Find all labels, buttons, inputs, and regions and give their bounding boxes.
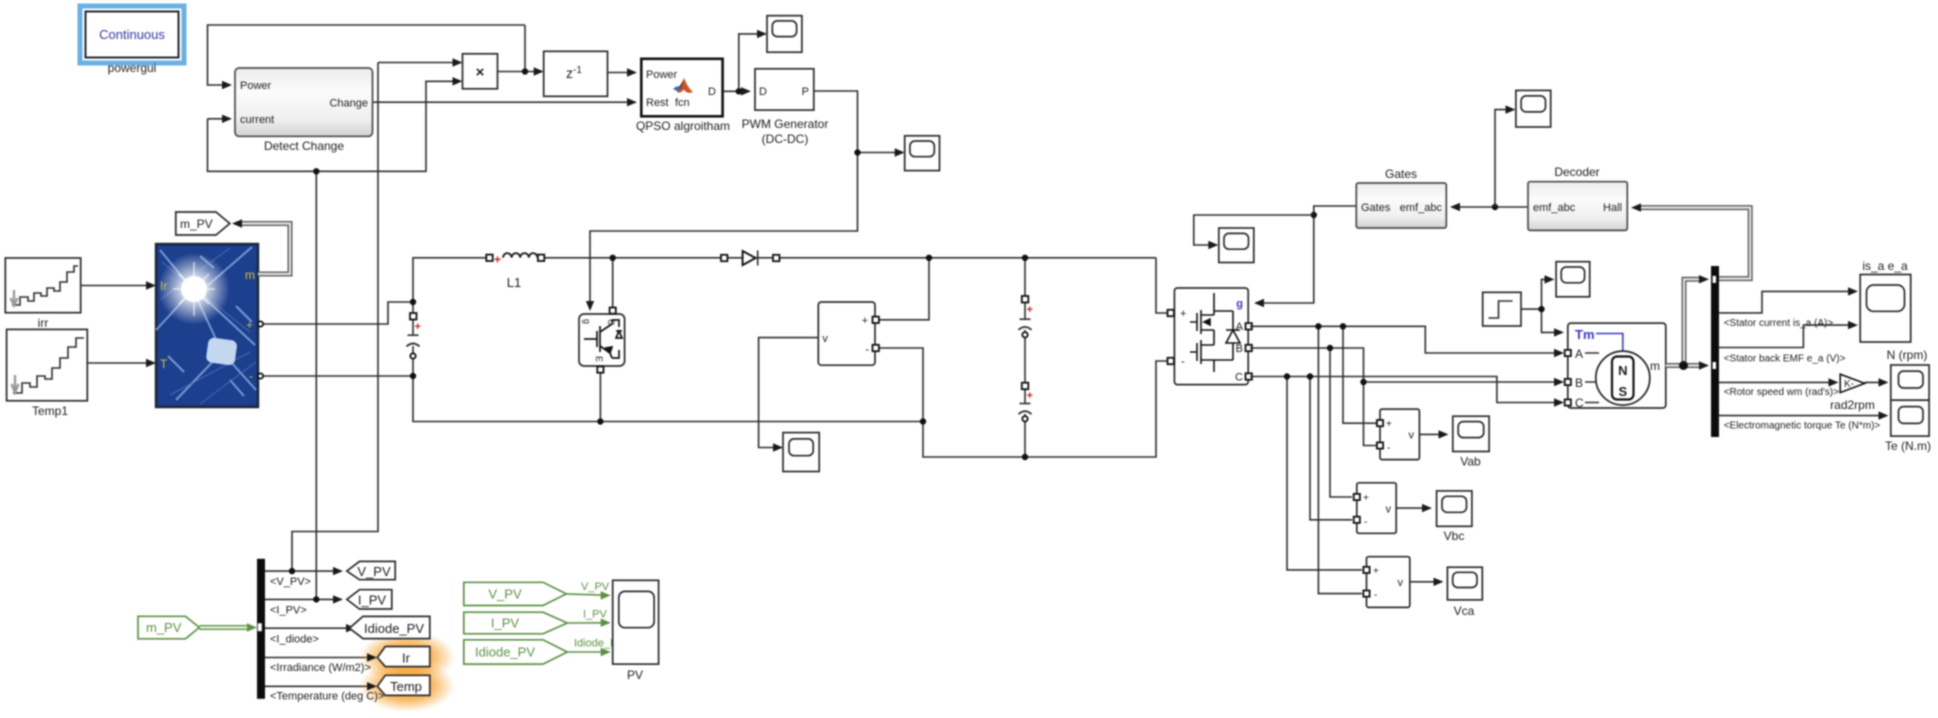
svg-text:v: v (822, 333, 828, 345)
svg-text:<Stator current is_a (A)>: <Stator current is_a (A)> (1724, 318, 1834, 329)
svg-text:Vca: Vca (1454, 604, 1475, 618)
svg-text:Temp1: Temp1 (32, 404, 68, 418)
svg-text:m: m (1650, 359, 1660, 373)
svg-text:v: v (1409, 430, 1415, 442)
svg-text:m: m (245, 268, 255, 282)
svg-text:g: g (582, 319, 592, 324)
svg-text:Idiode_PV: Idiode_PV (475, 645, 535, 660)
svg-text:+: + (1180, 308, 1186, 320)
svg-text:PV: PV (627, 668, 643, 682)
svg-text:B: B (1575, 376, 1583, 390)
svg-text:<I_diode>: <I_diode> (270, 634, 319, 646)
svg-text:Power: Power (646, 69, 678, 81)
svg-text:V_PV: V_PV (357, 564, 391, 579)
svg-text:<Temperature (deg C)>: <Temperature (deg C)> (270, 691, 384, 703)
svg-text:emf_abc: emf_abc (1533, 202, 1576, 214)
svg-text:+: + (1363, 493, 1369, 504)
svg-text:fcn: fcn (675, 97, 690, 109)
svg-text:Temp: Temp (390, 679, 422, 694)
svg-text:emf_abc: emf_abc (1400, 202, 1443, 214)
svg-text:K-: K- (1844, 379, 1854, 390)
svg-text:I_PV: I_PV (491, 616, 520, 631)
svg-text:A: A (1236, 321, 1244, 333)
svg-text:-: - (865, 344, 869, 356)
svg-text:×: × (476, 64, 485, 81)
svg-text:Vab: Vab (1460, 455, 1481, 469)
svg-text:+: + (1373, 566, 1379, 577)
svg-text:C: C (1235, 372, 1243, 384)
svg-text:-: - (249, 369, 253, 383)
svg-text:g: g (1236, 298, 1243, 310)
svg-text:irr: irr (38, 316, 49, 330)
svg-text:C: C (1575, 396, 1584, 410)
svg-text:m_PV: m_PV (180, 217, 213, 231)
svg-text:rad2rpm: rad2rpm (1830, 398, 1875, 412)
svg-text:D: D (759, 86, 767, 98)
svg-text:Power: Power (240, 80, 272, 92)
svg-text:+: + (862, 315, 868, 327)
svg-text:<Stator back EMF e_a (V)>: <Stator back EMF e_a (V)> (1724, 354, 1846, 365)
svg-text:Decoder: Decoder (1554, 165, 1599, 179)
svg-text:S: S (1618, 384, 1627, 399)
svg-text:Tm: Tm (1575, 327, 1595, 342)
svg-text:Continuous: Continuous (99, 27, 165, 42)
svg-text:Idiode_PV: Idiode_PV (364, 621, 424, 636)
svg-text:<Irradiance (W/m2)>: <Irradiance (W/m2)> (270, 662, 371, 674)
svg-text:powergui: powergui (108, 61, 157, 75)
svg-text:Vbc: Vbc (1444, 529, 1465, 543)
svg-text:V_PV: V_PV (581, 581, 610, 593)
svg-text:Gates: Gates (1361, 202, 1391, 214)
svg-text:Change: Change (329, 98, 368, 110)
svg-text:L1: L1 (507, 275, 521, 290)
svg-text:<Rotor speed wm (rad's)>: <Rotor speed wm (rad's)> (1724, 387, 1839, 398)
svg-text:(DC-DC): (DC-DC) (762, 132, 809, 146)
svg-text:Rest: Rest (646, 97, 669, 109)
svg-text:N (rpm): N (rpm) (1887, 348, 1928, 362)
svg-text:m_PV: m_PV (146, 620, 182, 635)
svg-text:+: + (415, 321, 421, 333)
svg-text:Te (N.m): Te (N.m) (1885, 439, 1931, 453)
svg-text:is_a e_a: is_a e_a (1862, 259, 1908, 273)
svg-text:P: P (802, 86, 809, 98)
svg-text:I_PV: I_PV (583, 609, 608, 621)
svg-text:-: - (1364, 517, 1367, 528)
svg-text:QPSO algroitham: QPSO algroitham (636, 119, 730, 133)
svg-text:<V_PV>: <V_PV> (270, 576, 311, 588)
svg-text:+: + (1386, 419, 1392, 430)
svg-text:D: D (708, 86, 716, 98)
svg-text:E: E (594, 356, 604, 362)
svg-text:PWM Generator: PWM Generator (742, 117, 829, 131)
svg-text:Ir: Ir (160, 279, 167, 293)
svg-text:T: T (160, 357, 168, 371)
svg-text:Hall: Hall (1603, 202, 1622, 214)
svg-text:B: B (1236, 343, 1243, 355)
svg-text:V_PV: V_PV (488, 587, 522, 602)
svg-text:+: + (246, 318, 253, 332)
svg-text:-: - (1374, 590, 1377, 601)
svg-text:+: + (1027, 390, 1033, 402)
svg-text:N: N (1618, 363, 1627, 378)
svg-text:<I_PV>: <I_PV> (270, 605, 307, 617)
svg-text:I_PV: I_PV (358, 593, 387, 608)
svg-text:+: + (494, 253, 501, 267)
svg-text:v: v (1398, 577, 1404, 589)
svg-text:-: - (1387, 443, 1390, 454)
svg-text:<Electromagnetic torque Te (N*: <Electromagnetic torque Te (N*m)> (1724, 421, 1881, 432)
svg-text:Gates: Gates (1385, 167, 1417, 181)
svg-text:Ir: Ir (402, 651, 411, 666)
svg-text:+: + (1027, 304, 1033, 316)
svg-text:v: v (1386, 504, 1392, 516)
svg-text:-: - (1181, 356, 1185, 368)
svg-text:A: A (1575, 347, 1583, 361)
svg-text:Detect Change: Detect Change (264, 139, 344, 153)
svg-text:current: current (240, 114, 274, 126)
